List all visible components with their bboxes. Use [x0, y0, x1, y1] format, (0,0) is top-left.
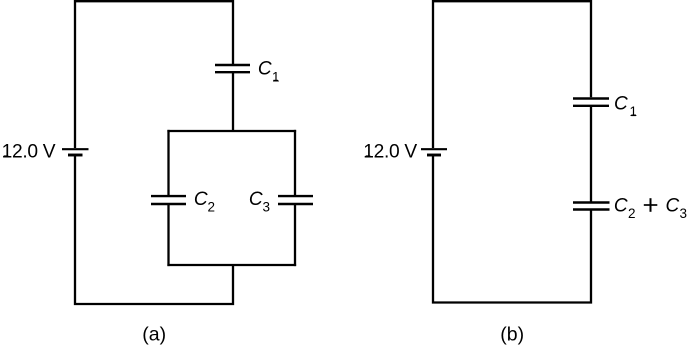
wire: circuit (a) outer loop top - battery positive up left side, across top, down right to C1 [75, 1, 233, 148]
wire: inner box left side lower segment (a) [167, 204, 169, 266]
svg-text:C: C [249, 189, 263, 210]
wire: box bottom junction down, across bottom, up to battery negative (a) [75, 155, 233, 304]
svg-text:12.0 V: 12.0 V [2, 141, 56, 162]
wire: inner parallel box top edge (a) [167, 130, 296, 132]
capacitor C2+C3 equivalent (b) [573, 203, 610, 210]
wire: circuit (b) left side up from battery, across top, down right to C1 (b) [433, 1, 591, 148]
wire: inner box right side upper segment (a) [294, 130, 296, 196]
svg-text:(a): (a) [142, 324, 166, 346]
wire: inner box left side upper segment (a) [167, 130, 169, 196]
label 12.0 V (b) [363, 141, 417, 162]
capacitor C2 (a) [151, 196, 186, 204]
svg-text:1: 1 [272, 69, 280, 84]
wire: C2+C3 bottom plate down, across bottom, up to battery negative (b) [433, 155, 591, 303]
svg-text:12.0 V: 12.0 V [363, 141, 417, 162]
label 12.0 V (a) [2, 141, 56, 162]
svg-text:3: 3 [263, 199, 271, 214]
wire: inner box right side lower segment (a) [294, 204, 296, 266]
label C1 (a) [258, 59, 280, 85]
battery 12.0 V (a) [62, 149, 89, 155]
wire: C1 bottom plate to parallel box top (a) [232, 72, 234, 131]
svg-text:1: 1 [630, 104, 638, 119]
svg-text:2: 2 [208, 199, 216, 214]
svg-text:(b): (b) [500, 324, 524, 346]
svg-text:C: C [666, 196, 680, 217]
battery 12.0 V (b) [421, 149, 447, 155]
svg-text:3: 3 [680, 206, 687, 221]
wire: C1 bottom plate to C2+C3 top plate (b) [590, 106, 592, 203]
svg-text:C: C [258, 59, 272, 80]
svg-text:C: C [614, 196, 628, 217]
label C2 + C3 (b) [614, 196, 687, 222]
label C1 (b) [614, 94, 637, 120]
wire: inner box bottom edge (a) [167, 264, 296, 266]
capacitor C1 (b) [573, 99, 609, 106]
capacitor C3 (a) [278, 196, 313, 204]
svg-text:2: 2 [628, 206, 636, 221]
capacitor C1 (a) [215, 65, 250, 72]
svg-text:C: C [614, 94, 628, 115]
svg-text:C: C [194, 189, 208, 210]
